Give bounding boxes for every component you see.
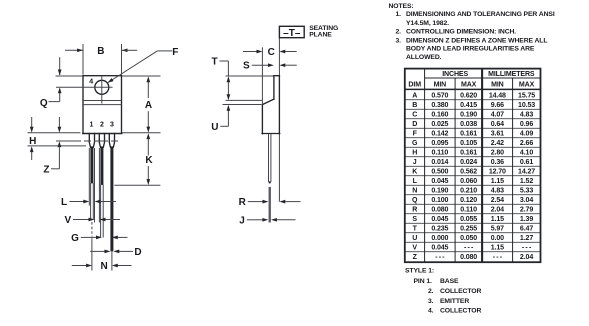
dimension N bbox=[72, 261, 132, 272]
pin 3 lead centerline extension bbox=[111, 251, 113, 270]
svg-text:Q: Q bbox=[40, 98, 48, 109]
table row N bbox=[412, 187, 533, 194]
svg-text:4.09: 4.09 bbox=[520, 130, 533, 137]
svg-text:0.105: 0.105 bbox=[460, 140, 477, 147]
svg-text:N: N bbox=[412, 187, 417, 194]
svg-text:0.110: 0.110 bbox=[432, 149, 449, 156]
svg-text:1.27: 1.27 bbox=[520, 235, 533, 242]
hole label 4 bbox=[89, 78, 93, 85]
svg-text:0.120: 0.120 bbox=[460, 197, 477, 204]
svg-text:0.100: 0.100 bbox=[431, 197, 448, 204]
svg-text:3.61: 3.61 bbox=[491, 130, 504, 137]
dimension K bbox=[145, 133, 153, 185]
svg-text:0.96: 0.96 bbox=[520, 121, 533, 128]
svg-text:0.050: 0.050 bbox=[460, 235, 477, 242]
table row K bbox=[412, 168, 535, 175]
svg-text:0.562: 0.562 bbox=[460, 168, 477, 175]
svg-text:0.142: 0.142 bbox=[431, 130, 448, 137]
extension line body top left bbox=[56, 75, 83, 77]
table row B bbox=[412, 102, 535, 109]
extension line tab top left (T) bbox=[226, 75, 274, 77]
svg-text:- - -: - - - bbox=[493, 254, 503, 261]
side view step diagonal bbox=[262, 99, 274, 105]
pin 1 lead continuation below break bbox=[91, 183, 94, 271]
svg-text:B: B bbox=[97, 46, 104, 57]
svg-text:2.04: 2.04 bbox=[520, 254, 533, 261]
extension line B right bbox=[121, 44, 123, 75]
dimension R bbox=[239, 197, 301, 208]
svg-text:H: H bbox=[29, 136, 36, 147]
extension line shoulder end left (H) bbox=[28, 145, 87, 147]
notes text block bbox=[389, 3, 555, 61]
svg-text:S: S bbox=[412, 216, 417, 223]
svg-text:0.161: 0.161 bbox=[460, 149, 477, 156]
table headers bbox=[408, 71, 535, 89]
svg-text:0.038: 0.038 bbox=[460, 121, 477, 128]
svg-text:V: V bbox=[64, 215, 71, 226]
dimension S bbox=[243, 61, 297, 72]
pin 1 lead front view bbox=[89, 134, 94, 184]
table row V bbox=[412, 244, 532, 251]
side view tab top edge bbox=[274, 75, 280, 77]
svg-text:0.00: 0.00 bbox=[491, 235, 504, 242]
svg-text:T: T bbox=[211, 57, 217, 68]
svg-text:DIMENSIONING AND TOLERANCING P: DIMENSIONING AND TOLERANCING PER ANSI bbox=[406, 11, 555, 18]
extension line lead1 right shoulder bbox=[94, 148, 96, 223]
side view tab front face bbox=[273, 76, 275, 99]
svg-text:K: K bbox=[145, 155, 153, 166]
svg-text:2.: 2. bbox=[428, 288, 434, 295]
svg-text:EMITTER: EMITTER bbox=[440, 298, 469, 305]
svg-text:3.: 3. bbox=[396, 37, 402, 44]
svg-text:0.024: 0.024 bbox=[460, 159, 477, 166]
svg-text:U: U bbox=[412, 235, 417, 242]
svg-text:1.: 1. bbox=[396, 11, 402, 18]
svg-text:- - -: - - - bbox=[522, 244, 532, 251]
table row Z bbox=[413, 254, 534, 261]
table row U bbox=[412, 235, 533, 242]
dimension U bbox=[211, 105, 230, 133]
seating plane extension line upper bbox=[278, 38, 280, 75]
svg-text:1.52: 1.52 bbox=[520, 178, 533, 185]
svg-text:D: D bbox=[412, 121, 417, 128]
svg-text:3.04: 3.04 bbox=[520, 197, 533, 204]
extension line lead1 left shoulder bbox=[88, 148, 90, 206]
svg-text:1.39: 1.39 bbox=[520, 216, 533, 223]
svg-text:1.15: 1.15 bbox=[491, 178, 504, 185]
front view chamfer line lower bbox=[83, 104, 122, 106]
svg-text:2.04: 2.04 bbox=[491, 206, 504, 213]
svg-text:2.42: 2.42 bbox=[491, 140, 504, 147]
svg-text:C: C bbox=[412, 111, 417, 118]
svg-text:0.500: 0.500 bbox=[431, 168, 448, 175]
svg-text:4.83: 4.83 bbox=[520, 111, 533, 118]
svg-text:CONTROLLING DIMENSION: INCH.: CONTROLLING DIMENSION: INCH. bbox=[406, 29, 516, 36]
extension line body top right bbox=[122, 75, 161, 77]
svg-text:STYLE 1:: STYLE 1: bbox=[405, 267, 434, 274]
svg-text:0.160: 0.160 bbox=[431, 111, 448, 118]
svg-text:DIMENSION Z DEFINES A ZONE WHE: DIMENSION Z DEFINES A ZONE WHERE ALL bbox=[406, 37, 547, 44]
dimension A bbox=[145, 76, 152, 132]
dimension G bbox=[71, 233, 127, 244]
dimension F leader to hole bbox=[107, 47, 179, 84]
seating plane datum box -T- bbox=[279, 26, 304, 39]
svg-text:COLLECTOR: COLLECTOR bbox=[440, 288, 481, 295]
svg-text:2.79: 2.79 bbox=[520, 206, 533, 213]
svg-text:- - -: - - - bbox=[435, 254, 445, 261]
svg-text:J: J bbox=[239, 215, 245, 226]
svg-text:0.095: 0.095 bbox=[431, 140, 448, 147]
svg-text:0.014: 0.014 bbox=[431, 159, 448, 166]
svg-text:2.80: 2.80 bbox=[491, 149, 504, 156]
dimension C bbox=[243, 47, 297, 58]
svg-text:L: L bbox=[61, 197, 67, 208]
svg-text:12.70: 12.70 bbox=[489, 168, 506, 175]
svg-text:- - -: - - - bbox=[464, 244, 474, 251]
svg-text:4.83: 4.83 bbox=[491, 187, 504, 194]
extension line body bottom right bbox=[122, 132, 161, 134]
svg-text:MIN: MIN bbox=[491, 82, 504, 89]
svg-text:10.53: 10.53 bbox=[518, 102, 535, 109]
dimension T bbox=[211, 57, 230, 101]
svg-text:–T–: –T– bbox=[283, 28, 301, 39]
svg-text:0.060: 0.060 bbox=[460, 178, 477, 185]
dimension V bbox=[64, 215, 120, 226]
svg-text:0.190: 0.190 bbox=[431, 187, 448, 194]
table row S bbox=[412, 216, 533, 223]
front face extension line up (C) bbox=[261, 47, 263, 104]
svg-text:4.: 4. bbox=[428, 308, 434, 315]
svg-text:5.97: 5.97 bbox=[491, 225, 504, 232]
table row R bbox=[412, 206, 533, 213]
svg-text:0.570: 0.570 bbox=[431, 92, 448, 99]
svg-text:0.025: 0.025 bbox=[431, 121, 448, 128]
svg-text:0.080: 0.080 bbox=[431, 206, 448, 213]
svg-text:V: V bbox=[412, 244, 417, 251]
svg-text:N: N bbox=[100, 261, 107, 272]
pin 3 lead front view bbox=[109, 134, 114, 252]
svg-text:4: 4 bbox=[89, 78, 93, 85]
svg-text:BODY AND LEAD IRREGULARITIES A: BODY AND LEAD IRREGULARITIES ARE bbox=[406, 46, 535, 53]
svg-text:0.161: 0.161 bbox=[460, 130, 477, 137]
K minimum lead length line bbox=[114, 184, 160, 186]
svg-text:0.210: 0.210 bbox=[460, 187, 477, 194]
svg-text:0.235: 0.235 bbox=[431, 225, 448, 232]
front view chamfer line upper bbox=[83, 100, 122, 102]
svg-text:0.045: 0.045 bbox=[431, 178, 448, 185]
svg-text:ALLOWED.: ALLOWED. bbox=[406, 54, 442, 61]
svg-text:0.380: 0.380 bbox=[431, 102, 448, 109]
side view body front face bbox=[261, 105, 263, 134]
svg-text:2: 2 bbox=[100, 122, 104, 129]
extension line B left bbox=[82, 44, 84, 75]
table row H bbox=[412, 149, 533, 156]
front view body outline bbox=[83, 76, 122, 134]
table row L bbox=[413, 178, 534, 185]
svg-text:INCHES: INCHES bbox=[442, 71, 468, 78]
step extension line upper bbox=[226, 99, 263, 101]
svg-text:J: J bbox=[413, 159, 417, 166]
pin 2 lead continuation below break bbox=[101, 184, 104, 237]
svg-text:Z: Z bbox=[43, 164, 49, 175]
svg-text:Y14.5M, 1982.: Y14.5M, 1982. bbox=[406, 20, 449, 27]
dimension D bbox=[90, 247, 141, 258]
svg-text:0.415: 0.415 bbox=[460, 102, 477, 109]
dimension Q bbox=[40, 57, 62, 109]
dimension table grid bbox=[405, 69, 541, 263]
side view back face / seating plane surface bbox=[278, 76, 280, 134]
svg-text:MAX: MAX bbox=[461, 82, 477, 89]
table row F bbox=[413, 130, 534, 137]
pin 2 lead front view bbox=[99, 134, 104, 186]
side view lead bbox=[269, 134, 271, 223]
svg-text:0.620: 0.620 bbox=[460, 92, 477, 99]
table row G bbox=[412, 140, 533, 147]
svg-text:2.66: 2.66 bbox=[520, 140, 533, 147]
svg-text:0.055: 0.055 bbox=[460, 216, 477, 223]
svg-text:14.27: 14.27 bbox=[518, 168, 535, 175]
svg-text:4.07: 4.07 bbox=[491, 111, 504, 118]
svg-text:0.61: 0.61 bbox=[520, 159, 533, 166]
svg-text:G: G bbox=[71, 233, 79, 244]
svg-text:G: G bbox=[412, 140, 418, 147]
svg-text:14.48: 14.48 bbox=[489, 92, 506, 99]
table row Q bbox=[412, 197, 533, 204]
svg-text:2.: 2. bbox=[396, 29, 402, 36]
Z zone dashed line bbox=[56, 140, 118, 142]
svg-text:F: F bbox=[172, 47, 178, 58]
svg-text:U: U bbox=[211, 122, 218, 133]
svg-text:0.255: 0.255 bbox=[460, 225, 477, 232]
seating plane extension line lower bbox=[278, 134, 280, 201]
hole crosshair vertical centerline bbox=[101, 76, 103, 103]
dimension Z bbox=[43, 117, 61, 175]
svg-text:0.190: 0.190 bbox=[460, 111, 477, 118]
svg-text:C: C bbox=[268, 47, 275, 58]
pin number 3 bbox=[110, 122, 114, 129]
svg-text:1.15: 1.15 bbox=[491, 244, 504, 251]
svg-text:H: H bbox=[412, 149, 417, 156]
svg-text:Q: Q bbox=[412, 197, 418, 204]
svg-text:A: A bbox=[145, 100, 152, 111]
svg-text:3.: 3. bbox=[428, 298, 434, 305]
svg-text:R: R bbox=[239, 197, 247, 208]
svg-text:1: 1 bbox=[89, 122, 93, 129]
table row T bbox=[413, 225, 534, 232]
table row J bbox=[413, 159, 534, 166]
svg-text:COLLECTOR: COLLECTOR bbox=[440, 308, 481, 315]
svg-text:PIN 1.: PIN 1. bbox=[414, 278, 432, 285]
table row A bbox=[412, 92, 535, 99]
pin number 1 bbox=[89, 122, 93, 129]
svg-text:B: B bbox=[412, 102, 417, 109]
svg-text:0.000: 0.000 bbox=[431, 235, 448, 242]
svg-text:3: 3 bbox=[110, 122, 114, 129]
svg-text:MIN: MIN bbox=[434, 82, 447, 89]
step extension line lower bbox=[223, 104, 262, 106]
style 1 pin function list bbox=[405, 267, 481, 314]
mounting hole bbox=[95, 80, 109, 94]
svg-text:D: D bbox=[134, 247, 141, 258]
svg-text:0.080: 0.080 bbox=[460, 254, 477, 261]
svg-text:MAX: MAX bbox=[519, 82, 535, 89]
svg-text:A: A bbox=[412, 92, 417, 99]
svg-text:BASE: BASE bbox=[440, 278, 459, 285]
svg-text:4.10: 4.10 bbox=[520, 149, 533, 156]
side view body bottom bbox=[262, 133, 280, 135]
svg-text:5.33: 5.33 bbox=[520, 187, 533, 194]
svg-text:0.36: 0.36 bbox=[491, 159, 504, 166]
hole horizontal centerline / Q extension bbox=[56, 86, 113, 88]
dimension H bbox=[29, 117, 36, 160]
svg-text:0.045: 0.045 bbox=[431, 216, 448, 223]
svg-text:PLANE: PLANE bbox=[309, 31, 332, 38]
dimension J bbox=[239, 215, 295, 226]
svg-text:1.15: 1.15 bbox=[491, 216, 504, 223]
svg-text:0.045: 0.045 bbox=[431, 244, 448, 251]
pin number 2 bbox=[100, 122, 104, 129]
svg-text:MILLIMETERS: MILLIMETERS bbox=[488, 71, 535, 78]
svg-text:6.47: 6.47 bbox=[520, 225, 533, 232]
svg-text:R: R bbox=[412, 206, 417, 213]
extension line body bottom left bbox=[28, 132, 81, 134]
dimension B bbox=[65, 46, 137, 57]
table row D bbox=[412, 121, 533, 128]
dimension L bbox=[61, 197, 116, 208]
svg-text:NOTES:: NOTES: bbox=[389, 3, 414, 10]
svg-text:15.75: 15.75 bbox=[518, 92, 535, 99]
svg-text:2.54: 2.54 bbox=[491, 197, 504, 204]
svg-text:DIM: DIM bbox=[408, 82, 421, 89]
svg-text:0.64: 0.64 bbox=[491, 121, 504, 128]
svg-text:9.66: 9.66 bbox=[491, 102, 504, 109]
extension line lead2 left shoulder bbox=[98, 148, 100, 223]
svg-text:S: S bbox=[243, 61, 250, 72]
svg-text:0.110: 0.110 bbox=[460, 206, 477, 213]
seating plane label bbox=[309, 25, 338, 39]
table row C bbox=[412, 111, 533, 118]
